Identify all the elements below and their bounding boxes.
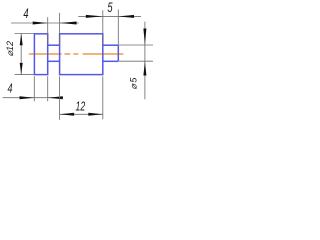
dimension line d6 (bottom 12) (60, 113, 103, 115)
dimension line d2 (top 5) (78, 15, 141, 17)
svg-text:4: 4 (23, 6, 29, 21)
svg-text:12: 12 (76, 100, 86, 114)
arrow a8 (tip at 61.2 pointing up, from below) (143, 61, 146, 75)
extension line e3 (top 5, at x=102.8) (102, 10, 104, 45)
arrow a11 (tip at 59.6 pointing left, inside) (60, 113, 75, 116)
arrow a1 (tip at 47.7 pointing right) (33, 22, 48, 25)
neck bottom edge (48, 60, 60, 62)
arrow a10 (tip at 47.7 pointing left) (48, 96, 63, 99)
extension line e6 (diameter 12 bottom, left of part) (15, 74, 35, 76)
extension line e4 (top 5, at x=118.3) (117, 10, 119, 46)
extension line e12 (diameter 5 bottom) (119, 60, 153, 62)
arrow a12 (tip at 102.8 pointing right, inside) (88, 113, 103, 116)
extension line e7 (bottom 4, x=34.3) (33, 76, 35, 101)
extension line e5 (diameter 12 top, left of part) (15, 33, 35, 35)
dimension line d5 (bottom 4) (3, 97, 64, 99)
tail top edge (103, 44, 119, 46)
extension line e2 (top 4, at x=59.6) (59, 13, 61, 45)
arrow a2 (tip at 59.6 pointing left) (60, 22, 77, 25)
extension line e9 (bottom 12, x=59.6) (59, 76, 61, 120)
arrow a6 (d3 down) (20, 63, 23, 75)
dimension line d1 (top 4) (11, 22, 79, 24)
center cylinder rectangle (60, 34, 103, 75)
svg-text:4: 4 (8, 82, 13, 96)
arrow a3 (tip at 102.8 pointing right) (86, 15, 103, 18)
collar rectangle (34, 34, 47, 75)
arrow a7 (tip at 45 pointing down, from above) (143, 29, 146, 46)
extension line e10 (bottom 12, x=102.8) (102, 76, 104, 119)
dimension line d4 (diameter 5, vertical) (144, 22, 146, 100)
centerline (axis), orange dash-dot (29, 53, 124, 55)
svg-text:5: 5 (107, 0, 113, 15)
tail end face (117, 45, 119, 61)
svg-text:⌀5: ⌀5 (128, 76, 138, 89)
extension line e8 (bottom 4, x=47.7) (47, 76, 49, 101)
arrow a4 (tip at 118.3 pointing left) (118, 15, 134, 18)
dimension line d3 (diameter 12, vertical) (20, 34, 22, 75)
tail bottom edge (103, 60, 119, 62)
extension line e11 (diameter 5 top) (119, 44, 153, 46)
extension line e1 (top 4, at x=47.7) (47, 17, 49, 45)
arrow a9 (tip at 34.3 pointing right) (20, 96, 35, 99)
svg-text:⌀12: ⌀12 (5, 41, 15, 56)
arrow a5 (d3 up) (20, 34, 23, 46)
neck top edge (48, 44, 60, 46)
part outline: collar section (34, 34, 118, 75)
